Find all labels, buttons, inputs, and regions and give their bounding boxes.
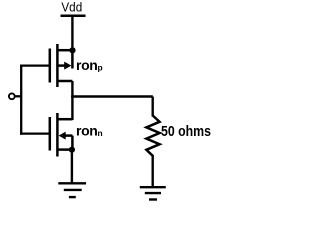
wire: NMOS source to ground [71, 150, 73, 184]
PMOS transistor (ron_p) [50, 44, 73, 87]
wire: NMOS gate lead [20, 132, 50, 134]
ground symbol (NMOS source) [58, 183, 86, 197]
wire: resistor to ground [151, 155, 153, 187]
wire: output corner down to resistor [151, 97, 153, 117]
wire: input stub [15, 95, 22, 97]
wire: PMOS drain down to output node [71, 81, 73, 98]
NMOS transistor (ron_n) [50, 113, 73, 157]
junction dot: NMOS source / body tie [69, 147, 75, 153]
svg-text:ronp: ronp [76, 57, 103, 73]
junction dot: PMOS source / body tie [69, 47, 75, 53]
svg-text:ronn: ronn [76, 123, 103, 139]
svg-text:50 ohms: 50 ohms [161, 124, 211, 140]
wire: input vertical joining both gates [20, 65, 22, 135]
wire: Vdd rail to PMOS source [71, 16, 73, 52]
wire: output node horizontal [71, 95, 153, 98]
Vdd power rail [61, 15, 86, 18]
ground symbol (resistor) [140, 187, 166, 199]
svg-text:Vdd: Vdd [61, 0, 82, 14]
input port bubble [9, 93, 15, 99]
resistor R1 50 ohms [146, 116, 159, 156]
wire: output node to NMOS drain [71, 97, 73, 121]
wire: PMOS gate lead [20, 64, 50, 66]
